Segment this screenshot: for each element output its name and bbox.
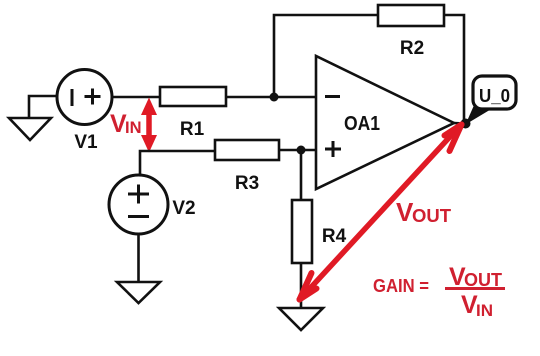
svg-text:OA1: OA1 bbox=[344, 113, 380, 135]
resistor R3 bbox=[215, 140, 279, 160]
ground bbox=[117, 282, 160, 303]
svg-text:OUT: OUT bbox=[412, 205, 452, 226]
resistor R4 bbox=[292, 200, 312, 263]
wire bbox=[137, 234, 140, 282]
ground bbox=[9, 118, 51, 140]
arrow VOUT bbox=[300, 125, 462, 300]
wire bbox=[226, 96, 316, 99]
wire bbox=[444, 15, 464, 122]
svg-text:R3: R3 bbox=[235, 173, 259, 194]
svg-text:V2: V2 bbox=[172, 198, 195, 219]
wire bbox=[300, 154, 303, 201]
wire bbox=[454, 122, 465, 125]
svg-text:GAIN =: GAIN = bbox=[373, 275, 429, 296]
node (inverting input junction) bbox=[270, 93, 279, 102]
node U_0 output bbox=[461, 119, 471, 129]
resistor R1 bbox=[160, 87, 226, 106]
svg-text:R1: R1 bbox=[180, 119, 205, 140]
label VOUT bbox=[396, 197, 452, 227]
wire bbox=[140, 151, 215, 176]
net label U_0 bbox=[466, 76, 517, 125]
voltage source V2 bbox=[109, 175, 168, 234]
svg-text:U_0: U_0 bbox=[479, 85, 510, 106]
svg-text:R2: R2 bbox=[400, 38, 424, 59]
svg-text:R4: R4 bbox=[322, 226, 347, 247]
svg-text:IN: IN bbox=[476, 301, 493, 320]
ground bbox=[279, 308, 323, 330]
wire bbox=[29, 96, 57, 118]
arrow VIN bbox=[141, 98, 157, 153]
wire bbox=[274, 15, 378, 97]
node (non-inverting input junction) bbox=[297, 146, 306, 155]
svg-text:V1: V1 bbox=[74, 132, 98, 153]
op-amp OA1 bbox=[316, 56, 454, 189]
svg-text:IN: IN bbox=[125, 119, 142, 137]
wire bbox=[112, 96, 160, 99]
wire bbox=[300, 263, 303, 308]
wire bbox=[279, 149, 316, 152]
label VIN bbox=[110, 110, 142, 138]
formula GAIN bbox=[373, 263, 505, 320]
voltage source V1 bbox=[57, 70, 112, 125]
resistor R2 bbox=[378, 5, 444, 26]
